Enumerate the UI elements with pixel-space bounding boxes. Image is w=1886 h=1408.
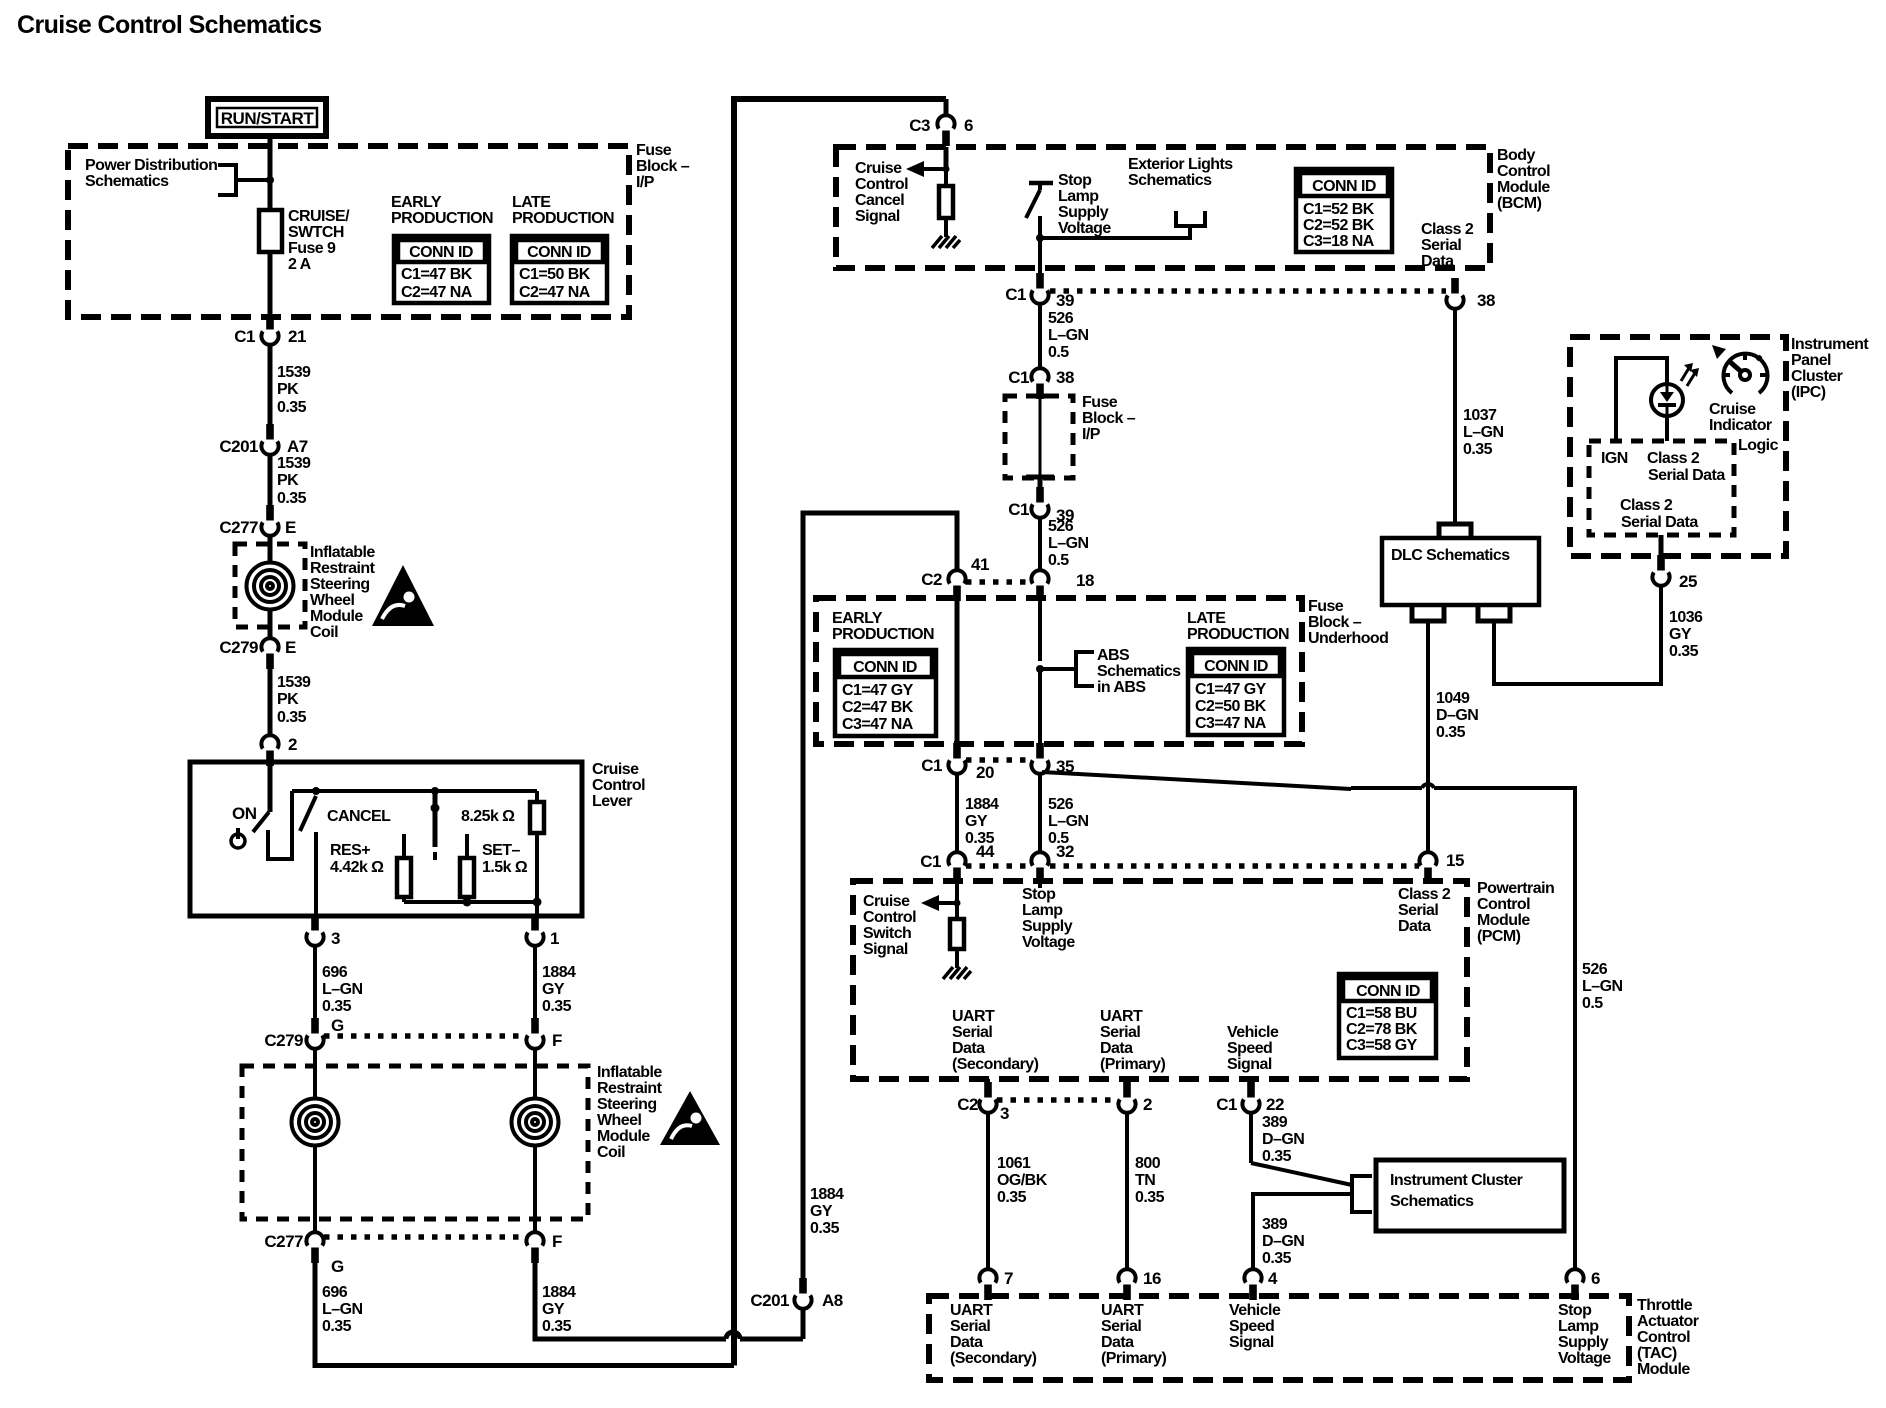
- svg-text:4.42k Ω: 4.42k Ω: [330, 859, 384, 876]
- svg-text:39: 39: [1056, 291, 1074, 310]
- svg-text:UART: UART: [952, 1008, 995, 1025]
- svg-text:L–GN: L–GN: [1582, 978, 1622, 995]
- svg-text:2 A: 2 A: [288, 256, 312, 273]
- 1884 GY feed from lever: up-and-over to C2 pin 41: [803, 513, 957, 1283]
- svg-text:38: 38: [1477, 291, 1495, 310]
- wire 526 L-GN 0.5: [1038, 773, 1042, 853]
- svg-text:0.35: 0.35: [322, 1318, 352, 1335]
- svg-text:Cruise Control Schematics: Cruise Control Schematics: [17, 11, 322, 39]
- svg-text:L–GN: L–GN: [322, 981, 362, 998]
- svg-text:Control: Control: [1477, 896, 1530, 913]
- stop lamp switch: [1029, 181, 1053, 186]
- svg-text:PK: PK: [277, 691, 299, 708]
- svg-text:Signal: Signal: [863, 941, 908, 958]
- connector C1 pin 39: [1031, 273, 1048, 304]
- connector pin 18: [1031, 570, 1048, 601]
- svg-text:C2: C2: [957, 1095, 978, 1114]
- svg-text:D–GN: D–GN: [1436, 707, 1478, 724]
- ground (PCM): [943, 967, 971, 979]
- svg-text:(IPC): (IPC): [1791, 384, 1826, 401]
- ground (BCM): [932, 236, 960, 248]
- Body Control Module dashed box: [836, 147, 1490, 268]
- svg-text:UART: UART: [1100, 1008, 1143, 1025]
- svg-text:Class 2: Class 2: [1647, 450, 1700, 467]
- svg-text:Data: Data: [1421, 253, 1454, 270]
- svg-text:L–GN: L–GN: [1048, 813, 1088, 830]
- svg-text:Signal: Signal: [1229, 1334, 1274, 1351]
- connector C1 pin 44: [948, 852, 965, 883]
- wire to exterior lights tap: [1040, 226, 1190, 238]
- svg-text:A7: A7: [287, 437, 308, 456]
- gauge icon: [1724, 354, 1768, 393]
- svg-text:Steering: Steering: [310, 576, 370, 593]
- svg-text:C1=58 BU: C1=58 BU: [1346, 1005, 1417, 1022]
- svg-text:SET–: SET–: [482, 842, 520, 859]
- svg-text:4: 4: [1268, 1269, 1278, 1288]
- svg-text:526: 526: [1048, 518, 1074, 535]
- svg-text:1539: 1539: [277, 364, 311, 381]
- svg-text:C1: C1: [1005, 285, 1026, 304]
- IPC inner logic dashed box: [1589, 441, 1734, 535]
- svg-text:C1: C1: [1008, 500, 1029, 519]
- svg-text:Coil: Coil: [310, 624, 338, 641]
- svg-text:C201: C201: [219, 437, 258, 456]
- svg-text:526: 526: [1582, 961, 1608, 978]
- svg-text:32: 32: [1056, 842, 1074, 861]
- wire 1884 GY 0.35 to C201 A8: [535, 1261, 726, 1339]
- wire stop lamp supply voltage down: [1038, 238, 1042, 278]
- svg-text:Cruise: Cruise: [863, 893, 910, 910]
- svg-text:0.5: 0.5: [1048, 552, 1069, 569]
- svg-text:PRODUCTION: PRODUCTION: [391, 210, 493, 227]
- svg-text:1049: 1049: [1436, 690, 1470, 707]
- svg-text:Lamp: Lamp: [1558, 1318, 1599, 1335]
- dotted connector line C279: [324, 1033, 526, 1039]
- svg-text:Voltage: Voltage: [1558, 1350, 1611, 1367]
- svg-text:Stop: Stop: [1022, 886, 1056, 903]
- svg-text:Block –: Block –: [1308, 614, 1362, 631]
- svg-text:25: 25: [1679, 572, 1697, 591]
- wire stop lamp to junction: [1038, 216, 1042, 238]
- wire 526 L-GN 0.5: [1038, 517, 1042, 571]
- ABS tap bracket: [1076, 652, 1094, 686]
- svg-text:Lamp: Lamp: [1058, 188, 1099, 205]
- long feed wire from bottom-left up to C3: [734, 99, 946, 1366]
- svg-text:Fuse: Fuse: [1308, 598, 1344, 615]
- svg-text:CONN ID: CONN ID: [409, 244, 473, 261]
- svg-text:L–GN: L–GN: [322, 1301, 362, 1318]
- svg-text:TN: TN: [1135, 1172, 1155, 1189]
- connector pin 4: [1244, 1269, 1261, 1300]
- wire 1037 L-GN 0.35: [1453, 308, 1457, 524]
- svg-text:DLC Schematics: DLC Schematics: [1391, 547, 1510, 564]
- diagonal to instrument cluster: [1251, 1163, 1352, 1185]
- svg-text:(BCM): (BCM): [1497, 195, 1542, 212]
- svg-text:(Primary): (Primary): [1101, 1350, 1167, 1367]
- svg-text:Cancel: Cancel: [855, 192, 904, 209]
- svg-text:0.35: 0.35: [1262, 1148, 1292, 1165]
- svg-text:SWTCH: SWTCH: [288, 224, 344, 241]
- svg-text:D–GN: D–GN: [1262, 1131, 1304, 1148]
- svg-text:C1=47 GY: C1=47 GY: [1195, 681, 1267, 698]
- svg-text:Serial: Serial: [1421, 237, 1461, 254]
- svg-text:Module: Module: [310, 608, 363, 625]
- svg-text:E: E: [285, 638, 296, 657]
- svg-text:C1=50 BK: C1=50 BK: [519, 266, 591, 283]
- svg-text:Lamp: Lamp: [1022, 902, 1063, 919]
- svg-text:526: 526: [1048, 796, 1074, 813]
- clockspring coil (lower left): [313, 1048, 317, 1099]
- svg-text:Block –: Block –: [636, 158, 690, 175]
- wire crossover bump at x1428: [1422, 784, 1434, 788]
- svg-text:0.35: 0.35: [1436, 724, 1466, 741]
- dotted connector line C2/18: [966, 579, 1031, 585]
- svg-text:0.35: 0.35: [542, 998, 572, 1015]
- svg-text:Wheel: Wheel: [310, 592, 354, 609]
- svg-text:Throttle: Throttle: [1637, 1297, 1693, 1314]
- connector C2 pin 3: [979, 1082, 996, 1113]
- wire 389 D-GN 0.35 upper: [1249, 1112, 1253, 1163]
- wire 1884 GY 0.35: [533, 945, 537, 1019]
- wire RUN/START to fuse: [268, 136, 273, 210]
- exterior lights tap symbol: [1176, 211, 1205, 226]
- connector C277 pin E: [261, 505, 278, 536]
- svg-text:0.35: 0.35: [322, 998, 352, 1015]
- svg-text:(Secondary): (Secondary): [950, 1350, 1037, 1367]
- svg-text:C3=47 NA: C3=47 NA: [842, 716, 914, 733]
- svg-text:Module: Module: [597, 1128, 650, 1145]
- connector C3 pin 6: [937, 115, 954, 146]
- svg-text:D–GN: D–GN: [1262, 1233, 1304, 1250]
- svg-text:Body: Body: [1497, 147, 1535, 164]
- connector C1 pin 21: [261, 314, 278, 345]
- svg-text:C1=47 GY: C1=47 GY: [842, 682, 914, 699]
- svg-text:Instrument: Instrument: [1791, 336, 1869, 353]
- svg-text:C201: C201: [750, 1291, 789, 1310]
- power distribution tap bracket: [218, 165, 236, 195]
- Fuse Block Underhood dashed box: [816, 598, 1302, 744]
- svg-text:A8: A8: [822, 1291, 843, 1310]
- svg-text:Signal: Signal: [1227, 1056, 1272, 1073]
- svg-text:C1: C1: [921, 756, 942, 775]
- svg-text:(Primary): (Primary): [1100, 1056, 1166, 1073]
- svg-text:UART: UART: [1101, 1302, 1144, 1319]
- class 2 wire across to TAC stop lamp drop: [1351, 788, 1575, 1269]
- svg-text:RES+: RES+: [330, 842, 370, 859]
- connector C1 pin 38: [1031, 368, 1048, 399]
- svg-text:C3=18 NA: C3=18 NA: [1303, 233, 1375, 250]
- svg-text:Schematics: Schematics: [1128, 172, 1212, 189]
- svg-text:RUN/START: RUN/START: [221, 109, 315, 128]
- node ABS tap: [1036, 665, 1044, 673]
- svg-text:C279: C279: [219, 638, 258, 657]
- svg-text:Schematics: Schematics: [1097, 663, 1181, 680]
- switch ON blade: [253, 812, 269, 832]
- Cruise Control Lever box: [190, 762, 582, 916]
- svg-text:C277: C277: [219, 518, 258, 537]
- svg-text:696: 696: [322, 964, 348, 981]
- svg-text:GY: GY: [1669, 626, 1692, 643]
- vehicle speed branch wire: [1253, 1194, 1352, 1270]
- svg-text:Stop: Stop: [1558, 1302, 1592, 1319]
- wire from pin 2 into switch: [268, 762, 273, 812]
- svg-text:800: 800: [1135, 1155, 1161, 1172]
- svg-text:Fuse: Fuse: [1082, 394, 1118, 411]
- svg-text:Serial Data: Serial Data: [1648, 467, 1725, 484]
- svg-text:38: 38: [1056, 368, 1074, 387]
- svg-text:Serial: Serial: [952, 1024, 992, 1041]
- svg-text:0.35: 0.35: [1463, 441, 1493, 458]
- svg-text:C1: C1: [920, 852, 941, 871]
- wire 1539 PK 0.35: [268, 454, 273, 505]
- cruise control cancel signal arrow: [922, 167, 946, 171]
- svg-text:PRODUCTION: PRODUCTION: [832, 626, 934, 643]
- svg-text:ABS: ABS: [1097, 647, 1130, 664]
- svg-text:Wheel: Wheel: [597, 1112, 641, 1129]
- steering wheel coil dashed box (upper): [235, 544, 305, 627]
- svg-text:1884: 1884: [965, 796, 999, 813]
- svg-text:1061: 1061: [997, 1155, 1031, 1172]
- svg-text:OG/BK: OG/BK: [997, 1172, 1048, 1189]
- instrument cluster tap bracket: [1352, 1176, 1372, 1212]
- svg-text:1539: 1539: [277, 674, 311, 691]
- wire C3 into BCM: [944, 147, 949, 169]
- svg-text:C1=52 BK: C1=52 BK: [1303, 201, 1375, 218]
- wires into PCM: [1038, 881, 1042, 888]
- svg-text:Inflatable: Inflatable: [597, 1064, 662, 1081]
- svg-text:Cruise: Cruise: [855, 160, 902, 177]
- svg-text:ON: ON: [232, 804, 257, 823]
- Throttle Actuator Control dashed box: [929, 1296, 1629, 1380]
- svg-text:Module: Module: [1477, 912, 1530, 929]
- svg-text:Steering: Steering: [597, 1096, 657, 1113]
- svg-text:0.35: 0.35: [277, 399, 307, 416]
- Fuse Block I/P dashed box (middle): [1005, 396, 1073, 478]
- svg-text:EARLY: EARLY: [391, 194, 442, 211]
- lever bottom rail: [404, 900, 537, 904]
- svg-text:Stop: Stop: [1058, 172, 1092, 189]
- wire 800 TN 0.35: [1125, 1112, 1129, 1270]
- svg-text:Restraint: Restraint: [597, 1080, 663, 1097]
- svg-text:16: 16: [1143, 1269, 1161, 1288]
- svg-text:L–GN: L–GN: [1463, 424, 1503, 441]
- wiper contact stub: [433, 791, 438, 847]
- svg-text:Module: Module: [1497, 179, 1550, 196]
- svg-text:526: 526: [1048, 310, 1074, 327]
- CONN ID table BCM: [1296, 169, 1392, 252]
- svg-text:1539: 1539: [277, 455, 311, 472]
- DLC Schematics box: [1382, 538, 1539, 605]
- svg-text:Cluster: Cluster: [1791, 368, 1843, 385]
- svg-text:C1: C1: [234, 327, 255, 346]
- svg-text:Control: Control: [592, 777, 645, 794]
- cruise indicator LED: [1651, 384, 1683, 416]
- svg-text:PK: PK: [277, 472, 299, 489]
- connector C277 pin G: [306, 1232, 323, 1263]
- svg-text:Indicator: Indicator: [1709, 417, 1772, 434]
- svg-text:0.35: 0.35: [810, 1220, 840, 1237]
- airbag warning triangle (lower): [660, 1091, 720, 1145]
- svg-text:389: 389: [1262, 1216, 1288, 1233]
- connector C201 pin A8: [794, 1278, 811, 1309]
- svg-text:0.5: 0.5: [1582, 995, 1603, 1012]
- svg-text:(Secondary): (Secondary): [952, 1056, 1039, 1073]
- svg-text:in ABS: in ABS: [1097, 679, 1146, 696]
- svg-text:Module: Module: [1637, 1361, 1690, 1378]
- connector pin 25: [1652, 555, 1669, 586]
- svg-text:Powertrain: Powertrain: [1477, 880, 1554, 897]
- DLC bottom terminal left: [1412, 605, 1444, 621]
- svg-text:C3: C3: [909, 116, 930, 135]
- svg-text:Fuse: Fuse: [636, 142, 672, 159]
- wire crossover bump at x734: [726, 1332, 740, 1339]
- wire 1884 GY 0.35: [955, 773, 959, 853]
- svg-text:CANCEL: CANCEL: [327, 808, 391, 825]
- svg-text:CRUISE/: CRUISE/: [288, 208, 350, 225]
- svg-text:Control: Control: [855, 176, 908, 193]
- svg-text:Voltage: Voltage: [1058, 220, 1111, 237]
- svg-text:3: 3: [331, 929, 340, 948]
- svg-text:Serial: Serial: [950, 1318, 990, 1335]
- steering wheel coil dashed box (lower): [242, 1066, 588, 1219]
- svg-text:Power Distribution: Power Distribution: [85, 157, 217, 174]
- svg-text:C1=47 BK: C1=47 BK: [401, 266, 473, 283]
- svg-text:8.25k Ω: 8.25k Ω: [461, 808, 515, 825]
- svg-text:C3=47 NA: C3=47 NA: [1195, 715, 1267, 732]
- svg-text:Switch: Switch: [863, 925, 911, 942]
- svg-text:CONN ID: CONN ID: [1312, 178, 1376, 195]
- svg-text:C2=52 BK: C2=52 BK: [1303, 217, 1375, 234]
- svg-text:0.35: 0.35: [997, 1189, 1027, 1206]
- svg-text:Underhood: Underhood: [1308, 630, 1388, 647]
- svg-text:0.35: 0.35: [1262, 1250, 1292, 1267]
- connector pin 7: [979, 1269, 996, 1300]
- svg-text:Cruise: Cruise: [592, 761, 639, 778]
- lever top rail: [292, 789, 537, 793]
- connector pin 32: [1031, 852, 1048, 883]
- svg-text:C2=50 BK: C2=50 BK: [1195, 698, 1267, 715]
- wire 18 through underhood box: [1038, 599, 1042, 661]
- wire fuse to C1-21: [268, 252, 273, 314]
- gauge pointer arrow: [1712, 345, 1726, 359]
- svg-text:L–GN: L–GN: [1048, 327, 1088, 344]
- connector pin 2 into lever: [261, 735, 278, 766]
- wire 526 L-GN 0.5: [1038, 304, 1042, 369]
- svg-text:C2=78 BK: C2=78 BK: [1346, 1021, 1418, 1038]
- svg-text:1037: 1037: [1463, 407, 1497, 424]
- LED emission arrows: [1681, 368, 1695, 386]
- svg-text:Cruise: Cruise: [1709, 401, 1756, 418]
- svg-text:1: 1: [550, 929, 559, 948]
- connector pin 35: [1031, 743, 1048, 774]
- svg-text:Actuator: Actuator: [1637, 1313, 1699, 1330]
- fuse CRUISE/SWTCH Fuse 9 2A: [259, 210, 282, 252]
- wire 1539 PK 0.35: [268, 663, 273, 736]
- svg-text:2: 2: [288, 735, 297, 754]
- svg-text:1.5k Ω: 1.5k Ω: [482, 859, 528, 876]
- svg-text:Data: Data: [1398, 918, 1431, 935]
- svg-text:0.35: 0.35: [277, 490, 307, 507]
- svg-text:0.35: 0.35: [1669, 643, 1699, 660]
- svg-text:Control: Control: [1497, 163, 1550, 180]
- dotted connector line C2-3/2: [997, 1097, 1118, 1103]
- svg-text:Fuse 9: Fuse 9: [288, 240, 336, 257]
- Fuse Block - I/P dashed box: [68, 146, 629, 317]
- connector pin 15: [1419, 852, 1436, 883]
- svg-text:C277: C277: [264, 1232, 303, 1251]
- svg-text:Logic: Logic: [1738, 437, 1779, 454]
- svg-text:Voltage: Voltage: [1022, 934, 1075, 951]
- svg-text:C2: C2: [921, 570, 942, 589]
- svg-text:1884: 1884: [542, 1284, 576, 1301]
- wire ON contact to rail: [268, 791, 292, 859]
- connector pin 1: [526, 915, 543, 946]
- wire coil to C279: [268, 610, 273, 638]
- CONN ID table PCM: [1339, 974, 1436, 1058]
- svg-text:C1: C1: [1216, 1095, 1237, 1114]
- svg-text:7: 7: [1004, 1269, 1013, 1288]
- svg-text:PRODUCTION: PRODUCTION: [1187, 626, 1289, 643]
- clockspring coil (upper): [247, 563, 294, 610]
- stem to connector 25: [1659, 535, 1664, 562]
- resistor SET- 1.5k: [465, 834, 469, 858]
- svg-text:Lever: Lever: [592, 793, 632, 810]
- svg-text:C279: C279: [264, 1031, 303, 1050]
- connector C277 pin F: [526, 1232, 543, 1263]
- svg-text:F: F: [552, 1031, 562, 1050]
- connector C2 pin 41: [948, 570, 965, 601]
- svg-text:Panel: Panel: [1791, 352, 1831, 369]
- svg-text:(TAC): (TAC): [1637, 1345, 1677, 1362]
- power icon: [231, 834, 245, 848]
- connector pin 38 (class 2 to IPC): [1446, 278, 1463, 309]
- wire 696 L-GN 0.35 to bottom rail: [315, 1261, 734, 1366]
- svg-text:0.35: 0.35: [1135, 1189, 1165, 1206]
- svg-text:Coil: Coil: [597, 1144, 625, 1161]
- svg-text:Control: Control: [863, 909, 916, 926]
- svg-text:Class 2: Class 2: [1398, 886, 1451, 903]
- svg-text:Data: Data: [1101, 1334, 1134, 1351]
- CONN ID table early I/P: [394, 236, 489, 303]
- svg-text:6: 6: [1591, 1269, 1600, 1288]
- svg-text:Speed: Speed: [1229, 1318, 1274, 1335]
- svg-text:3: 3: [1000, 1104, 1009, 1123]
- svg-text:C1: C1: [1008, 368, 1029, 387]
- svg-text:0.35: 0.35: [542, 1318, 572, 1335]
- svg-text:696: 696: [322, 1284, 348, 1301]
- svg-text:Exterior Lights: Exterior Lights: [1128, 156, 1233, 173]
- svg-text:389: 389: [1262, 1114, 1288, 1131]
- svg-text:Class 2: Class 2: [1421, 221, 1474, 238]
- svg-text:Block –: Block –: [1082, 410, 1136, 427]
- wire C2-41 through underhood box: [955, 599, 960, 744]
- dotted connector line C277: [324, 1234, 526, 1240]
- svg-text:Signal: Signal: [855, 208, 900, 225]
- CONN ID table late I/P: [512, 236, 607, 303]
- svg-text:Schematics: Schematics: [85, 173, 169, 190]
- svg-text:1884: 1884: [542, 964, 576, 981]
- svg-text:15: 15: [1446, 851, 1464, 870]
- clockspring coil (lower right): [533, 1048, 537, 1099]
- connector pin 6: [1566, 1269, 1583, 1300]
- wire into coil: [268, 535, 273, 563]
- CONN ID table late underhood: [1188, 649, 1284, 735]
- resistor RES+ 4.42k: [402, 834, 406, 858]
- svg-text:L–GN: L–GN: [1048, 535, 1088, 552]
- connector C279 pin E: [261, 638, 278, 669]
- svg-text:21: 21: [288, 327, 306, 346]
- svg-text:Vehicle: Vehicle: [1227, 1024, 1279, 1041]
